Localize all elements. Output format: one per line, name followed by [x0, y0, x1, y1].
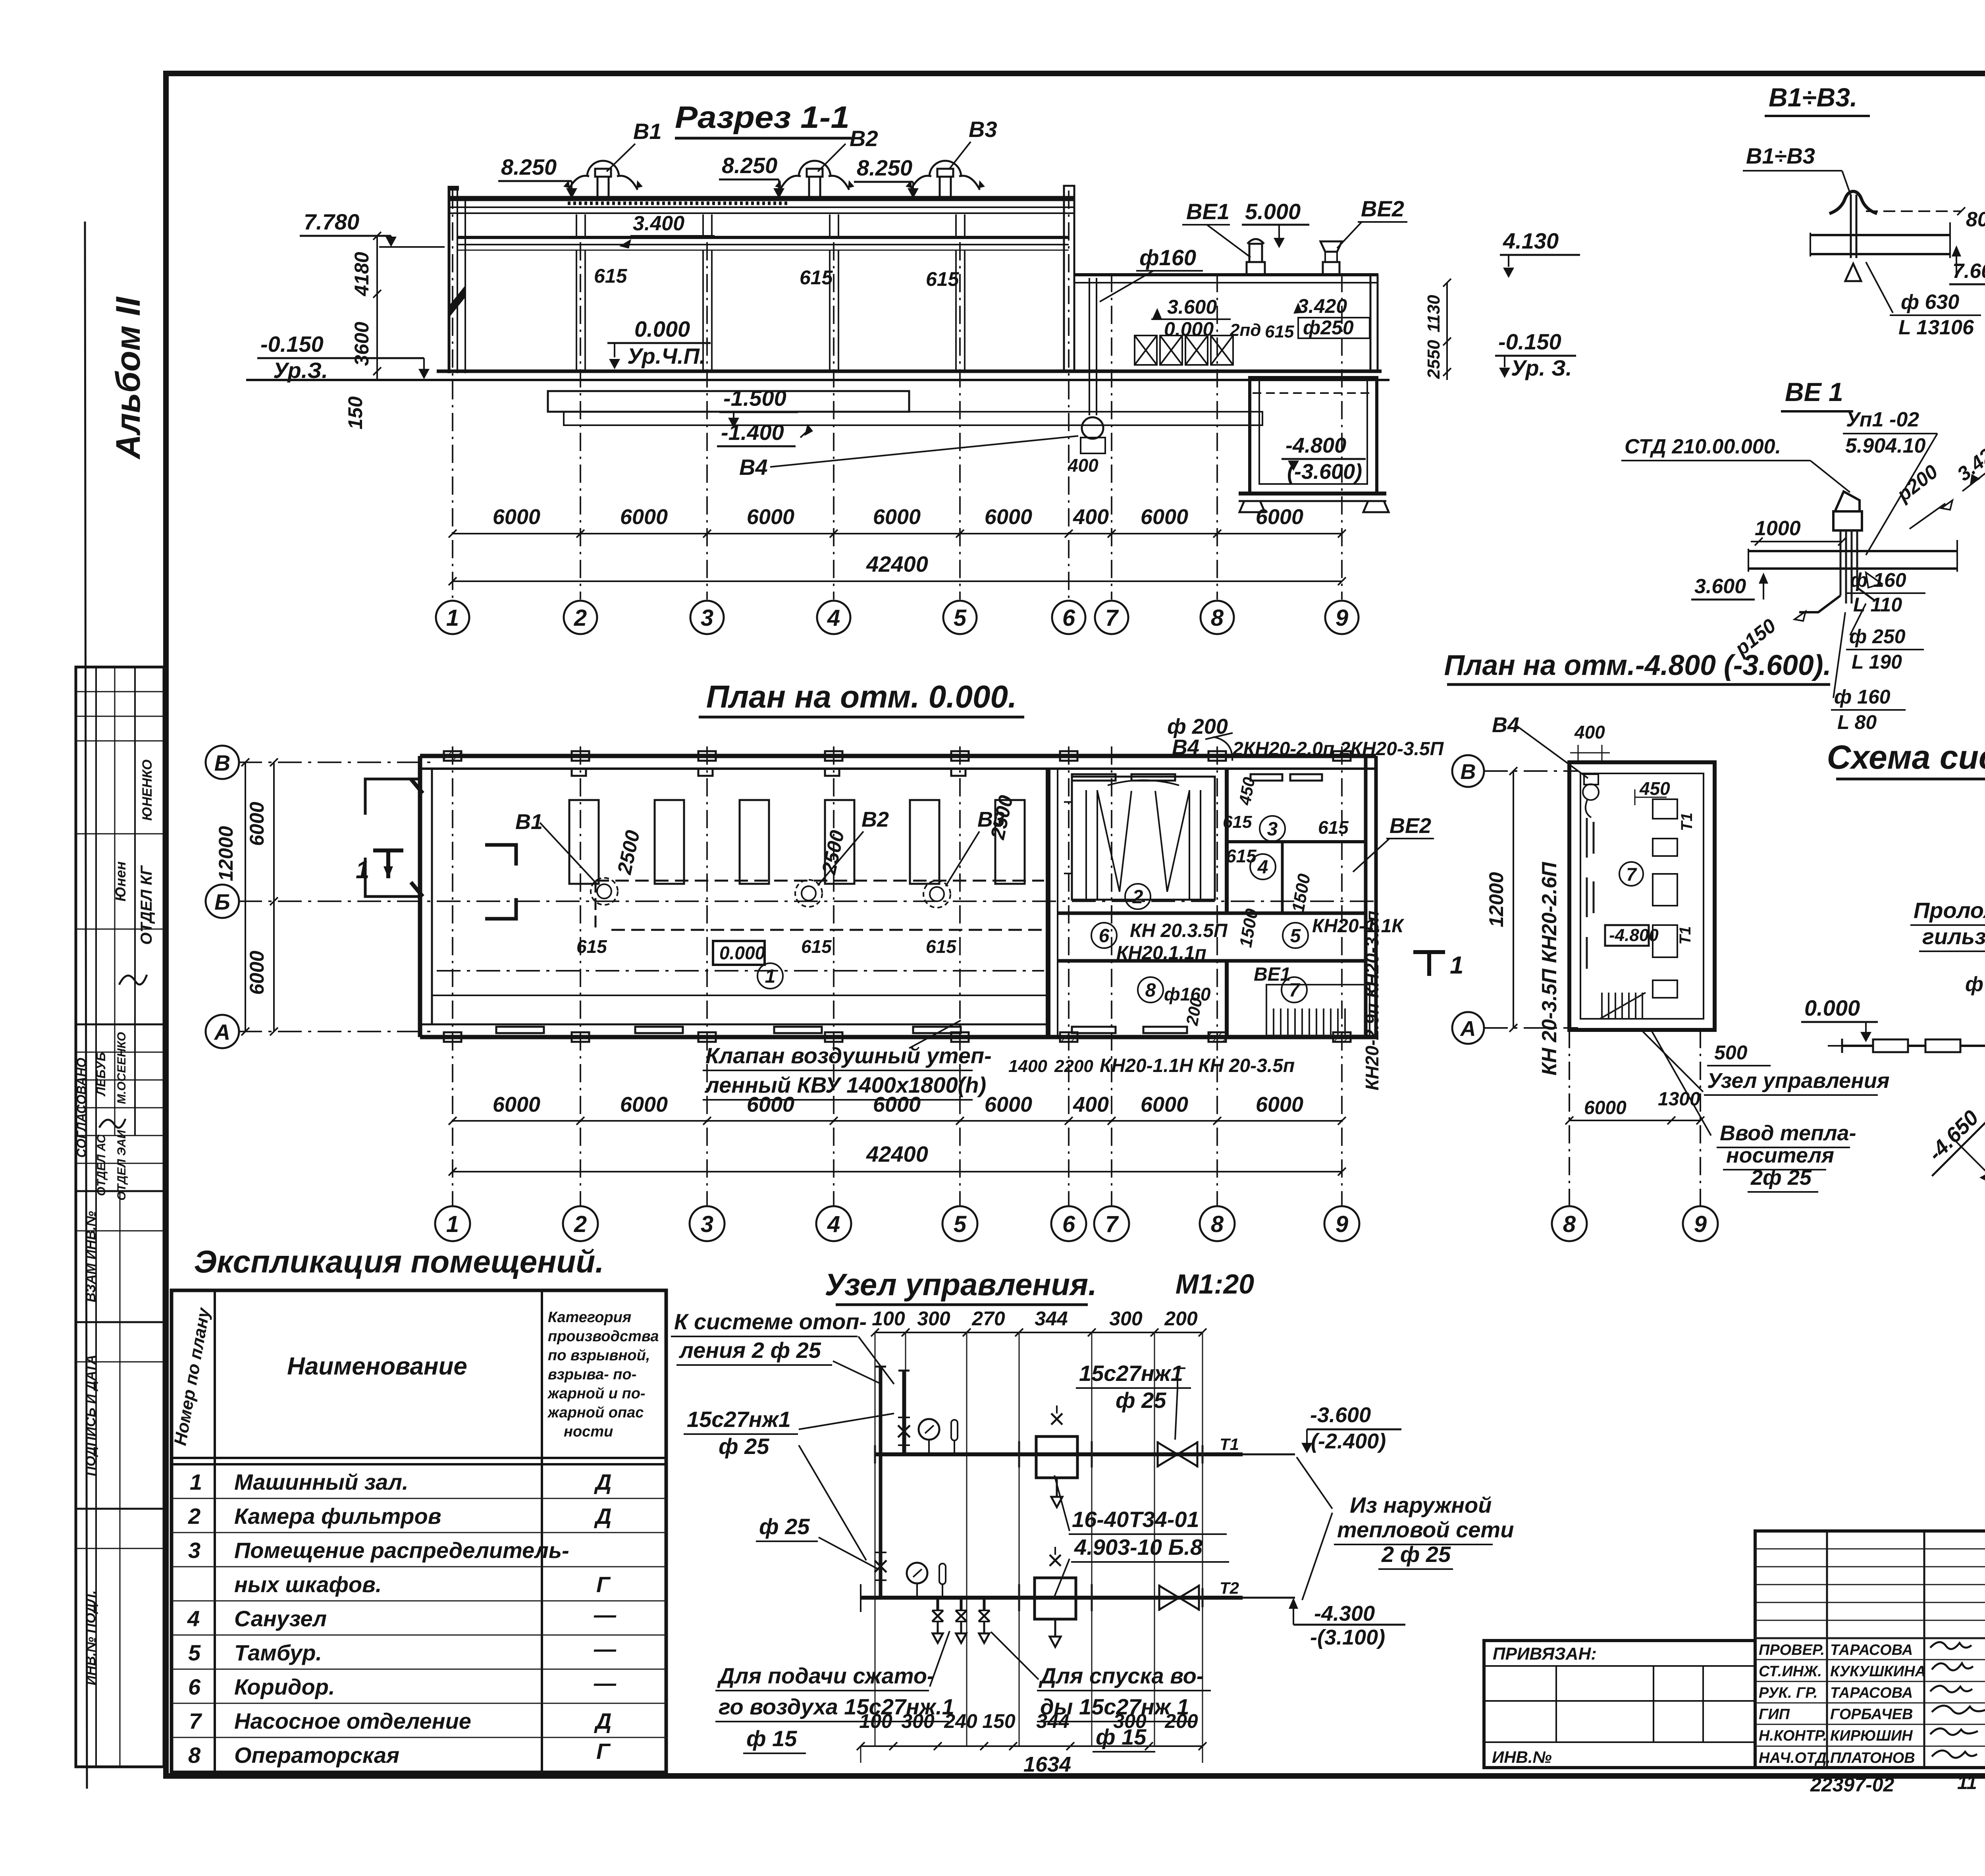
svg-text:615: 615 — [801, 936, 832, 957]
svg-text:2200: 2200 — [1054, 1057, 1093, 1076]
svg-text:6000: 6000 — [747, 505, 794, 529]
svg-text:В2: В2 — [850, 126, 878, 151]
svg-text:344: 344 — [1035, 1307, 1068, 1330]
crane beam dash-dot lower bay — [437, 970, 1044, 972]
svg-text:3: 3 — [1267, 819, 1278, 840]
svg-text:—: — — [594, 1636, 617, 1661]
svg-text:1: 1 — [190, 1469, 202, 1494]
svg-text:Т1: Т1 — [1678, 813, 1696, 831]
top dim row — [872, 1307, 1198, 1330]
svg-text:носителя: носителя — [1726, 1143, 1834, 1167]
heaters row — [1135, 335, 1233, 365]
svg-text:5: 5 — [188, 1640, 201, 1665]
svg-text:5.000: 5.000 — [1245, 199, 1301, 224]
roof slab — [448, 196, 1074, 201]
gauges top — [919, 1419, 939, 1440]
svg-text:150: 150 — [344, 396, 366, 430]
svg-text:300: 300 — [917, 1307, 950, 1330]
svg-text:0.000: 0.000 — [1164, 318, 1214, 340]
svg-text:ф 25: ф 25 — [759, 1514, 810, 1539]
svg-text:1: 1 — [1450, 952, 1463, 979]
axis leader lines — [238, 762, 1378, 1032]
pipes — [1840, 530, 1857, 603]
equipment rects in hall — [569, 800, 1025, 884]
svg-text:7: 7 — [1105, 605, 1119, 631]
svg-text:2пд: 2пд — [1230, 320, 1261, 340]
svg-text:ф160: ф160 — [1139, 245, 1196, 270]
left parapet / wall — [448, 186, 451, 373]
svg-text:-4.300: -4.300 — [1314, 1602, 1375, 1625]
svg-text:2КН20-2.0п 2КН20-3.5П: 2КН20-2.0п 2КН20-3.5П — [1232, 738, 1444, 760]
svg-text:800: 800 — [1966, 208, 1985, 231]
dim verticals — [875, 1332, 1203, 1746]
leaders from building to labels — [1642, 1031, 1703, 1092]
svg-text:Альбом II: Альбом II — [109, 296, 147, 460]
svg-text:-0.150: -0.150 — [1498, 329, 1561, 354]
svg-text:6: 6 — [1062, 605, 1075, 631]
underfloor channel — [548, 391, 909, 412]
left radiator chain — [1828, 1039, 1985, 1053]
svg-text:42400: 42400 — [866, 551, 928, 576]
svg-text:Б: Б — [214, 889, 230, 914]
svg-text:3: 3 — [188, 1538, 200, 1563]
section mark left — [373, 850, 403, 878]
svg-text:План на отм. 0.000.: План на отм. 0.000. — [706, 679, 1017, 714]
-4.650 rotated — [1914, 1095, 1985, 1176]
vent cap — [1835, 492, 1860, 511]
svg-text:ф 160: ф 160 — [1834, 686, 1891, 708]
svg-text:В1÷В3: В1÷В3 — [1746, 143, 1815, 168]
annex right wall — [1370, 275, 1372, 371]
svg-text:ПРИВЯЗАН:: ПРИВЯЗАН: — [1493, 1644, 1597, 1664]
svg-text:Н.КОНТР.: Н.КОНТР. — [1759, 1728, 1827, 1744]
svg-text:9: 9 — [1336, 1211, 1348, 1237]
svg-text:2ф 25: 2ф 25 — [1750, 1166, 1812, 1190]
svg-text:РУК. ГР.: РУК. ГР. — [1759, 1685, 1818, 1701]
svg-text:4: 4 — [827, 605, 840, 631]
svg-text:В1: В1 — [633, 119, 662, 144]
paper fold line left — [85, 222, 87, 1789]
svg-text:КУКУШКИНА: КУКУШКИНА — [1830, 1663, 1926, 1680]
svg-text:150: 150 — [982, 1710, 1016, 1732]
svg-text:344: 344 — [1036, 1710, 1069, 1732]
corner marks — [485, 845, 516, 919]
svg-text:1: 1 — [446, 1211, 459, 1237]
svg-text:6000: 6000 — [620, 505, 668, 529]
svg-text:9: 9 — [1694, 1211, 1707, 1237]
svg-text:Уп1 -02: Уп1 -02 — [1846, 408, 1919, 431]
svg-text:16-40Т34-01: 16-40Т34-01 — [1072, 1507, 1199, 1532]
svg-text:615: 615 — [1265, 322, 1294, 341]
svg-text:8: 8 — [188, 1743, 201, 1768]
stairs bottom left — [1600, 993, 1646, 1019]
left small block — [1484, 1641, 1755, 1768]
svg-text:42400: 42400 — [866, 1141, 928, 1166]
svg-text:Ур.З.: Ур.З. — [273, 358, 328, 383]
svg-text:Клапан воздушный утеп-: Клапан воздушный утеп- — [705, 1043, 992, 1068]
svg-text:Машинный зал.: Машинный зал. — [234, 1469, 409, 1494]
svg-text:615: 615 — [1226, 846, 1257, 866]
left risers — [879, 1367, 883, 1598]
svg-text:А: А — [1460, 1017, 1476, 1041]
left wall and porch — [418, 756, 422, 1037]
svg-text:6000: 6000 — [620, 1093, 668, 1116]
svg-text:ф 25: ф 25 — [719, 1434, 769, 1459]
gauges bottom — [907, 1563, 927, 1583]
svg-text:КИРЮШИН: КИРЮШИН — [1830, 1728, 1913, 1744]
svg-text:1: 1 — [765, 966, 776, 987]
interior columns — [576, 250, 965, 371]
svg-text:8: 8 — [1563, 1211, 1576, 1237]
svg-text:100: 100 — [859, 1710, 892, 1732]
svg-text:9: 9 — [1336, 605, 1348, 631]
stairs room 7 — [1266, 985, 1370, 1035]
svg-text:1000: 1000 — [1755, 517, 1801, 540]
svg-text:Т2: Т2 — [1220, 1579, 1239, 1597]
svg-text:ф250: ф250 — [1303, 316, 1354, 339]
svg-text:300: 300 — [1109, 1307, 1143, 1330]
svg-text:ВЕ1: ВЕ1 — [1254, 964, 1291, 985]
svg-text:В3: В3 — [969, 117, 997, 142]
svg-text:400: 400 — [1068, 455, 1098, 476]
svg-text:—: — — [594, 1602, 617, 1627]
svg-text:200: 200 — [1164, 1710, 1198, 1732]
grid circles — [435, 1206, 1359, 1241]
svg-text:КН20-1.1Н КН 20-3.5п: КН20-1.1Н КН 20-3.5п — [1100, 1055, 1295, 1076]
svg-text:1400: 1400 — [1008, 1057, 1047, 1076]
svg-text:12000: 12000 — [215, 826, 237, 881]
svg-text:6000: 6000 — [246, 802, 268, 846]
svg-text:3600: 3600 — [351, 322, 373, 366]
svg-text:2: 2 — [1132, 887, 1143, 908]
svg-text:6000: 6000 — [873, 1093, 921, 1116]
svg-text:ИНВ.№ ПОДЛ.: ИНВ.№ ПОДЛ. — [83, 1590, 98, 1685]
grid dash-dot verticals — [453, 191, 1342, 600]
monitor posts on roof between slabs — [576, 214, 965, 237]
svg-text:7: 7 — [1626, 864, 1637, 885]
svg-text:ИНВ.№: ИНВ.№ — [1492, 1748, 1552, 1766]
svg-text:ных шкафов.: ных шкафов. — [234, 1572, 382, 1597]
svg-text:4.130: 4.130 — [1503, 228, 1559, 253]
svg-text:Из наружной: Из наружной — [1350, 1492, 1492, 1517]
svg-text:В4: В4 — [739, 455, 768, 480]
svg-text:КН 20.3.5П: КН 20.3.5П — [1130, 920, 1228, 941]
room number circles — [757, 816, 1308, 1003]
svg-text:Насосное отделение: Насосное отделение — [234, 1708, 471, 1733]
bottom wall — [420, 1035, 1376, 1039]
svg-text:В: В — [1461, 760, 1476, 784]
right vertical dim chain — [1446, 283, 1448, 380]
svg-text:СОГЛАСОВАНО: СОГЛАСОВАНО — [74, 1058, 89, 1158]
svg-text:М1:20: М1:20 — [1176, 1269, 1254, 1300]
svg-text:6000: 6000 — [873, 505, 921, 529]
12000 dim — [1513, 771, 1514, 1028]
svg-text:КН 20-3.5П КН20-2.6П: КН 20-3.5П КН20-2.6П — [1538, 862, 1561, 1076]
svg-text:М.ОСЕЕНКО: М.ОСЕЕНКО — [115, 1032, 128, 1104]
svg-text:ПОДПИСЬ И ДАТА: ПОДПИСЬ И ДАТА — [83, 1355, 98, 1476]
svg-text:ф 15: ф 15 — [1965, 973, 1985, 996]
deflectors on roof — [563, 161, 985, 199]
table frame — [172, 1290, 666, 1772]
svg-text:ПРОВЕР.: ПРОВЕР. — [1759, 1642, 1825, 1658]
svg-text:-4.800: -4.800 — [1609, 925, 1659, 945]
svg-text:4.903-10 Б.8: 4.903-10 Б.8 — [1074, 1535, 1203, 1560]
svg-text:ВЕ 1: ВЕ 1 — [1785, 377, 1843, 407]
svg-text:Г: Г — [596, 1739, 611, 1764]
svg-text:15с27нж1: 15с27нж1 — [1079, 1361, 1183, 1386]
svg-text:ВЕ1: ВЕ1 — [1186, 199, 1230, 224]
svg-text:3.600: 3.600 — [1694, 575, 1746, 598]
lower hall edge — [433, 995, 1048, 996]
svg-text:ности: ности — [564, 1423, 613, 1440]
svg-text:3.400: 3.400 — [633, 212, 684, 235]
svg-text:1130: 1130 — [1424, 295, 1443, 332]
svg-text:6000: 6000 — [1584, 1097, 1627, 1118]
svg-text:по взрывной,: по взрывной, — [548, 1347, 650, 1364]
svg-text:0.000: 0.000 — [1804, 995, 1860, 1020]
svg-text:-3.600: -3.600 — [1310, 1403, 1371, 1427]
tick marks on pipes — [875, 1441, 1203, 1611]
svg-text:Узел управления: Узел управления — [1707, 1069, 1890, 1093]
svg-text:В1÷В3.: В1÷В3. — [1769, 83, 1857, 112]
left axis circles and dims — [206, 746, 239, 1048]
0.000 box — [713, 941, 765, 965]
svg-text:0.000: 0.000 — [634, 316, 690, 341]
svg-text:Г: Г — [596, 1572, 611, 1597]
svg-text:3.420: 3.420 — [1297, 295, 1347, 317]
svg-text:2: 2 — [188, 1504, 200, 1529]
svg-text:8: 8 — [1211, 605, 1224, 631]
-4.800 box — [1605, 925, 1649, 946]
filter unit room 2 — [1072, 777, 1215, 900]
svg-text:7.780: 7.780 — [304, 209, 359, 234]
svg-text:6000: 6000 — [747, 1093, 794, 1116]
valve on riser top — [898, 1425, 910, 1437]
svg-text:ОТДЕЛ ЭАИ: ОТДЕЛ ЭАИ — [115, 1130, 128, 1201]
svg-text:К системе отоп-: К системе отоп- — [674, 1309, 867, 1334]
svg-text:(-2.400): (-2.400) — [1311, 1429, 1386, 1453]
big valves right — [1158, 1442, 1197, 1466]
svg-text:2: 2 — [574, 605, 587, 631]
grid circles — [436, 601, 1359, 634]
svg-text:6000: 6000 — [1256, 1093, 1303, 1116]
svg-text:Операторская: Операторская — [234, 1743, 399, 1768]
800 dim — [1866, 210, 1961, 212]
svg-text:КН20.1.1п: КН20.1.1п — [1116, 943, 1206, 964]
svg-text:Д: Д — [594, 1469, 611, 1494]
VE1 fan on annex roof — [1247, 262, 1265, 275]
svg-text:ф 630: ф 630 — [1901, 291, 1959, 314]
grid dash-dot verticals down to circles — [453, 746, 1342, 1205]
svg-text:ГОРБАЧЕВ: ГОРБАЧЕВ — [1830, 1706, 1913, 1723]
-1.300 rotated — [1972, 1266, 1985, 1347]
svg-text:6000: 6000 — [493, 1093, 540, 1116]
svg-text:Категория: Категория — [548, 1309, 631, 1326]
svg-text:ТАРАСОВА: ТАРАСОВА — [1830, 1685, 1913, 1701]
svg-text:-0.150: -0.150 — [260, 332, 324, 357]
svg-text:ОТДЕЛ АС: ОТДЕЛ АС — [95, 1134, 108, 1196]
svg-text:L 190: L 190 — [1852, 651, 1902, 673]
svg-text:План на отм.-4.800 (-3.600).: План на отм.-4.800 (-3.600). — [1444, 650, 1831, 681]
ceiling beams — [457, 236, 1069, 239]
svg-text:8: 8 — [1211, 1211, 1224, 1237]
svg-text:4180: 4180 — [351, 252, 373, 296]
slab — [1748, 550, 1957, 552]
svg-text:Для подачи сжато-: Для подачи сжато- — [717, 1663, 935, 1688]
interior partitions right block — [1046, 769, 1050, 1037]
svg-text:4: 4 — [187, 1606, 200, 1631]
svg-text:Т1: Т1 — [1220, 1435, 1239, 1454]
svg-text:В2: В2 — [861, 808, 889, 831]
B4 duct and fan in pit — [1089, 278, 1090, 415]
left sidebar stamp — [74, 667, 164, 1767]
svg-text:Узел управления.: Узел управления. — [825, 1267, 1097, 1302]
dimension row 2 — [453, 580, 1342, 582]
svg-text:1: 1 — [446, 605, 459, 631]
svg-text:жарной и по-: жарной и по- — [547, 1385, 646, 1402]
roof slab — [1810, 234, 1950, 236]
svg-text:КН20-1.1К: КН20-1.1К — [1312, 916, 1405, 937]
svg-text:ления 2 ф 25: ления 2 ф 25 — [678, 1338, 821, 1363]
svg-text:3: 3 — [701, 605, 713, 631]
gravel strip — [568, 202, 790, 205]
annex roof — [1074, 273, 1378, 276]
svg-text:6000: 6000 — [246, 951, 268, 995]
f15 labels — [1965, 891, 1985, 1216]
svg-text:200: 200 — [1164, 1307, 1198, 1330]
svg-text:2: 2 — [574, 1211, 587, 1237]
svg-text:615: 615 — [800, 266, 833, 289]
svg-text:НАЧ.ОТД.: НАЧ.ОТД. — [1759, 1750, 1831, 1766]
svg-text:6000: 6000 — [1141, 1093, 1188, 1116]
svg-text:8.250: 8.250 — [857, 155, 912, 180]
bottom dims — [453, 1120, 1342, 1122]
8.250 elevation marks — [498, 153, 919, 199]
row lines — [172, 1498, 666, 1737]
svg-text:300: 300 — [901, 1710, 935, 1732]
valve on riser bottom — [875, 1560, 887, 1572]
svg-text:Разрез 1-1: Разрез 1-1 — [675, 100, 850, 135]
bend and flags at bottom — [1799, 596, 1840, 612]
svg-text:7: 7 — [1105, 1211, 1119, 1237]
svg-text:ВЗАМ ИНВ.№: ВЗАМ ИНВ.№ — [83, 1211, 98, 1302]
svg-text:ЛЕБУБ: ЛЕБУБ — [94, 1052, 108, 1097]
svg-text:22397-02: 22397-02 — [1810, 1774, 1894, 1796]
svg-text:В: В — [214, 750, 230, 775]
svg-text:—: — — [594, 1670, 617, 1695]
svg-text:-1.500: -1.500 — [723, 386, 786, 411]
svg-text:6: 6 — [1062, 1211, 1075, 1237]
svg-text:Ввод тепла-: Ввод тепла- — [1720, 1121, 1856, 1145]
svg-text:Экспликация помещений.: Экспликация помещений. — [194, 1244, 604, 1279]
svg-text:L 80: L 80 — [1837, 711, 1877, 733]
svg-text:ф 15: ф 15 — [746, 1726, 797, 1751]
svg-text:11: 11 — [1957, 1772, 1977, 1793]
svg-text:4: 4 — [1257, 857, 1268, 878]
svg-text:ф 160: ф 160 — [1850, 569, 1906, 591]
grid verticals and circles 8 9 — [1569, 1030, 1570, 1205]
svg-text:615: 615 — [926, 936, 957, 957]
svg-text:8.250: 8.250 — [501, 154, 557, 179]
elevator bottom — [1035, 1578, 1076, 1619]
svg-text:6000: 6000 — [1141, 505, 1188, 529]
signatures — [1930, 1642, 1985, 1758]
svg-text:1634: 1634 — [1023, 1753, 1071, 1776]
svg-text:В4: В4 — [1172, 735, 1199, 759]
floor and ground — [437, 370, 1382, 373]
triangle support — [1845, 264, 1861, 281]
svg-text:3: 3 — [701, 1211, 713, 1237]
svg-text:гильзе ф 50: гильзе ф 50 — [1922, 924, 1985, 949]
right wall of hall (hatched pier) — [1064, 186, 1074, 371]
building outline — [1569, 762, 1715, 1030]
svg-text:ВЕ2: ВЕ2 — [1361, 196, 1404, 221]
svg-text:Ур. З.: Ур. З. — [1511, 355, 1572, 380]
svg-text:ОТДЕЛ КГ: ОТДЕЛ КГ — [138, 865, 155, 945]
svg-text:Схема системы отопления.: Схема системы отопления. — [1827, 738, 1985, 776]
top wall — [420, 754, 1376, 758]
svg-text:Проложить в: Проложить в — [1914, 898, 1985, 923]
svg-text:Д: Д — [594, 1504, 611, 1529]
svg-text:Ур.Ч.П.: Ур.Ч.П. — [627, 343, 705, 368]
middle signature table — [1755, 1531, 1985, 1768]
svg-text:7: 7 — [189, 1708, 202, 1733]
svg-text:6000: 6000 — [985, 1093, 1032, 1116]
-4.300 mark right bottom — [1289, 1598, 1298, 1609]
interior equipment right row — [1653, 799, 1677, 998]
svg-text:400: 400 — [1073, 1093, 1109, 1116]
data rows — [187, 1469, 617, 1768]
column stubs bottom — [444, 1032, 1351, 1042]
svg-text:6000: 6000 — [985, 505, 1032, 529]
svg-text:400: 400 — [1073, 505, 1109, 529]
svg-text:100: 100 — [872, 1307, 905, 1330]
svg-text:615: 615 — [576, 936, 607, 957]
svg-text:Наименование: Наименование — [287, 1353, 467, 1380]
svg-text:12000: 12000 — [1485, 872, 1507, 927]
svg-text:5: 5 — [954, 605, 967, 631]
elevator top — [1036, 1436, 1077, 1478]
bottom dim row — [859, 1710, 1198, 1732]
svg-text:5: 5 — [954, 1211, 967, 1237]
radiator dashes left wall — [1587, 818, 1594, 969]
svg-text:8.250: 8.250 — [722, 153, 777, 178]
radiators bottom wall — [496, 774, 1322, 1033]
T1 big right — [1413, 952, 1445, 976]
main pipes — [875, 1452, 1243, 1456]
svg-text:ТАРАСОВА: ТАРАСОВА — [1830, 1642, 1913, 1658]
svg-text:7.600: 7.600 — [1952, 260, 1985, 283]
svg-text:450: 450 — [1639, 778, 1670, 799]
svg-text:-1.400: -1.400 — [721, 420, 784, 445]
column stubs top — [444, 751, 1351, 776]
svg-text:615: 615 — [926, 268, 960, 290]
corridor dashed band — [595, 880, 1044, 882]
svg-text:1300: 1300 — [1658, 1089, 1700, 1110]
svg-text:Д: Д — [594, 1708, 611, 1733]
svg-text:ПЛАТОНОВ: ПЛАТОНОВ — [1830, 1750, 1915, 1766]
axis circles B A — [1452, 755, 1484, 1044]
svg-text:ф 200: ф 200 — [1167, 715, 1228, 738]
svg-text:Для спуска во-: Для спуска во- — [1039, 1663, 1204, 1688]
svg-text:L 13106: L 13106 — [1898, 316, 1974, 339]
svg-text:ЮНЕНКО: ЮНЕНКО — [140, 760, 155, 821]
svg-text:СТД 210.00.000.: СТД 210.00.000. — [1625, 435, 1781, 458]
svg-text:Коридор.: Коридор. — [234, 1674, 335, 1699]
svg-text:300: 300 — [1113, 1710, 1147, 1732]
svg-text:производства: производства — [548, 1328, 659, 1345]
svg-text:Юнен: Юнен — [112, 861, 129, 901]
